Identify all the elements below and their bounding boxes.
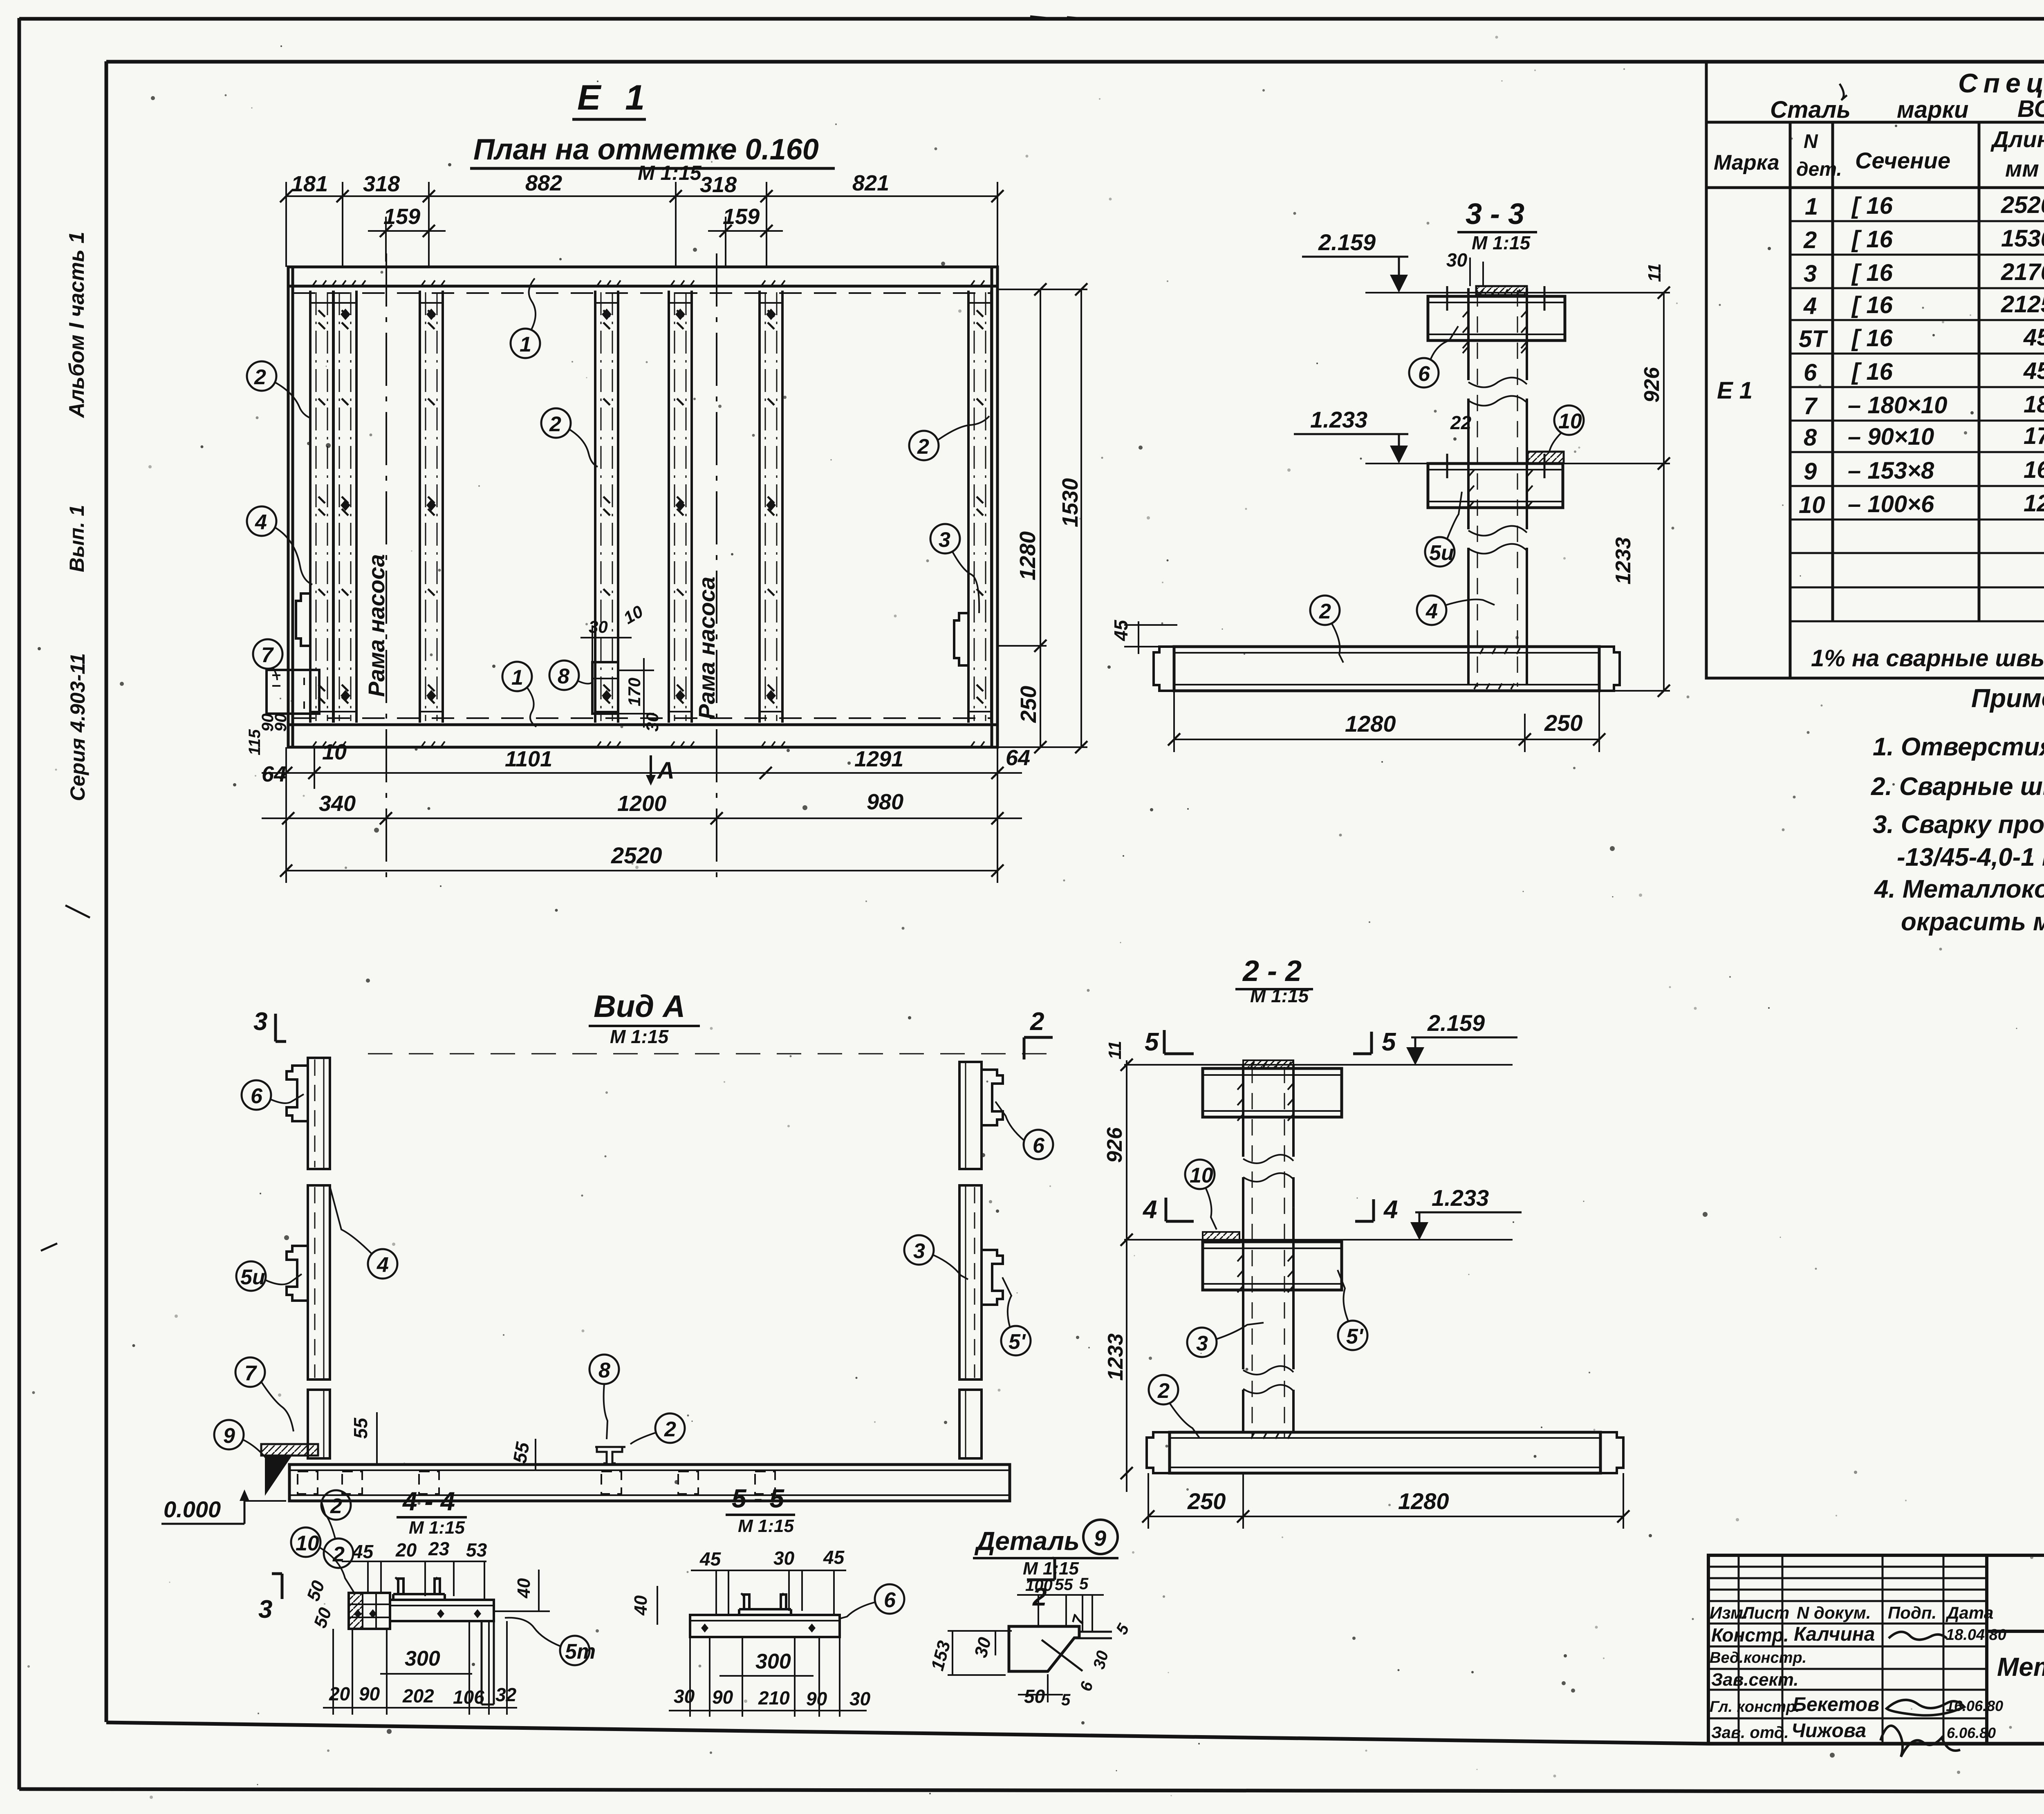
svg-text:7: 7 bbox=[261, 643, 274, 667]
part 10 at 1.233 bbox=[1528, 452, 1564, 463]
svg-text:дет.: дет. bbox=[1796, 159, 1842, 180]
svg-text:3 - 3: 3 - 3 bbox=[1466, 198, 1524, 231]
svg-text:450: 450 bbox=[2023, 358, 2044, 384]
svg-text:марки: марки bbox=[1897, 96, 1968, 123]
svg-text:М 1:15: М 1:15 bbox=[638, 161, 702, 184]
svg-text:159: 159 bbox=[383, 204, 420, 229]
svg-text:8: 8 bbox=[598, 1359, 610, 1382]
svg-text:Вып. 1: Вып. 1 bbox=[65, 505, 88, 572]
svg-text:45: 45 bbox=[699, 1548, 722, 1570]
balloons 2-2 bbox=[1187, 1328, 1217, 1357]
svg-text:160: 160 bbox=[2024, 457, 2044, 483]
top axis dash line bbox=[368, 1053, 1047, 1055]
svg-text:90: 90 bbox=[806, 1688, 827, 1709]
svg-text:М 1:15: М 1:15 bbox=[409, 1518, 465, 1538]
svg-text:2: 2 bbox=[330, 1494, 342, 1518]
svg-text:10: 10 bbox=[1190, 1164, 1213, 1187]
svg-text:Рама насоса: Рама насоса bbox=[694, 577, 719, 719]
svg-text:2: 2 bbox=[1803, 227, 1817, 253]
svg-text:1.233: 1.233 bbox=[1310, 407, 1367, 432]
svg-text:Зав. отд.: Зав. отд. bbox=[1711, 1724, 1789, 1742]
svg-text:2: 2 bbox=[917, 435, 929, 459]
svg-text:3. Сварку производить электрод: 3. Сварку производить электродами УОНИИ- bbox=[1873, 811, 2044, 839]
part 4 bracket left bbox=[296, 593, 312, 646]
svg-text:Марка: Марка bbox=[1714, 151, 1780, 175]
svg-text:210: 210 bbox=[758, 1687, 790, 1709]
svg-text:202: 202 bbox=[402, 1685, 434, 1707]
svg-text:Длина: Длина bbox=[1990, 126, 2044, 152]
svg-text:Е 1: Е 1 bbox=[577, 78, 652, 117]
svg-text:5Т: 5Т bbox=[1799, 326, 1828, 352]
svg-text:мм: мм bbox=[2005, 156, 2039, 181]
svg-text:Сталь: Сталь bbox=[1770, 96, 1851, 123]
svg-text:55: 55 bbox=[1055, 1576, 1073, 1594]
hatch ticks 3-3 column bbox=[1463, 289, 1533, 689]
svg-text:5': 5' bbox=[1009, 1330, 1026, 1354]
svg-text:53: 53 bbox=[466, 1539, 487, 1561]
channel on top 5-5 bbox=[739, 1593, 791, 1615]
svg-text:40: 40 bbox=[514, 1578, 534, 1599]
svg-text:6: 6 bbox=[1033, 1134, 1045, 1158]
svg-text:6: 6 bbox=[251, 1084, 263, 1108]
member center bbox=[595, 291, 618, 723]
part 8 plate center bbox=[592, 662, 618, 714]
svg-text:А: А bbox=[657, 757, 675, 784]
right column view A bbox=[959, 1062, 982, 1458]
top dimension line 2 (159) bbox=[368, 217, 783, 267]
beam 2-2 bbox=[1170, 1432, 1600, 1473]
svg-text:1530: 1530 bbox=[2001, 225, 2044, 252]
svg-text:8: 8 bbox=[1804, 424, 1817, 451]
svg-text:32: 32 bbox=[495, 1684, 517, 1705]
svg-text:10: 10 bbox=[1799, 492, 1825, 518]
member row2 bbox=[420, 291, 443, 723]
part 7 box bottom-left bbox=[267, 670, 319, 714]
svg-text:11: 11 bbox=[1105, 1041, 1125, 1059]
signatures (squiggles) bbox=[1880, 1632, 1964, 1757]
svg-text:55: 55 bbox=[509, 1440, 533, 1465]
left dim 2-2 bbox=[1126, 1060, 1127, 1492]
svg-text:10: 10 bbox=[296, 1532, 319, 1555]
svg-text:980: 980 bbox=[867, 790, 903, 814]
svg-text:5и: 5и bbox=[1429, 541, 1454, 565]
svg-text:Вид А: Вид А bbox=[594, 989, 685, 1024]
svg-text:3: 3 bbox=[913, 1239, 925, 1263]
svg-text:6.06.80: 6.06.80 bbox=[1947, 1724, 1996, 1741]
weld diamonds on members bbox=[341, 309, 776, 701]
svg-text:3: 3 bbox=[939, 528, 950, 552]
svg-text:7: 7 bbox=[1804, 393, 1818, 419]
svg-text:318: 318 bbox=[700, 172, 737, 197]
svg-text:Вед.констр.: Вед.констр. bbox=[1710, 1649, 1806, 1666]
bottom dims 3-3 bbox=[1174, 691, 1599, 752]
member right bbox=[968, 291, 991, 723]
svg-text:[ 16: [ 16 bbox=[1851, 292, 1893, 318]
balloons view A bbox=[242, 1080, 271, 1110]
svg-text:N: N bbox=[1804, 131, 1818, 152]
svg-text:Деталь: Деталь bbox=[974, 1526, 1080, 1556]
svg-text:2125: 2125 bbox=[2001, 291, 2044, 318]
balloons 3-3 bbox=[1409, 358, 1439, 387]
svg-text:30: 30 bbox=[674, 1686, 695, 1707]
svg-text:[ 16: [ 16 bbox=[1851, 193, 1893, 219]
structure 4-4 bbox=[349, 1593, 494, 1629]
svg-text:2: 2 bbox=[664, 1418, 676, 1441]
svg-text:Подп.: Подп. bbox=[1888, 1603, 1936, 1622]
svg-text:3: 3 bbox=[1804, 260, 1817, 287]
svg-text:170: 170 bbox=[625, 678, 644, 706]
svg-text:821: 821 bbox=[852, 171, 889, 195]
svg-text:6: 6 bbox=[884, 1588, 896, 1612]
svg-text:Серия 4.903-11: Серия 4.903-11 bbox=[66, 653, 89, 801]
svg-text:– 90×10: – 90×10 bbox=[1848, 423, 1934, 450]
svg-text:2 - 2: 2 - 2 bbox=[1242, 955, 1302, 988]
svg-text:5: 5 bbox=[1079, 1575, 1089, 1593]
svg-text:340: 340 bbox=[319, 791, 356, 816]
beam 3-3 bbox=[1174, 647, 1599, 691]
gusset polygon bbox=[1009, 1626, 1079, 1671]
svg-text:2: 2 bbox=[1319, 600, 1331, 623]
dims detail 9 bbox=[1025, 1575, 1089, 1595]
bottom dim line 1 bbox=[262, 747, 1022, 789]
base beam view A bbox=[289, 1465, 1010, 1501]
svg-text:Чижова: Чижова bbox=[1791, 1720, 1866, 1742]
top assembly 3-3 bbox=[1428, 296, 1565, 340]
svg-text:[ 16: [ 16 bbox=[1851, 325, 1893, 352]
svg-text:10: 10 bbox=[1558, 410, 1582, 433]
svg-text:5т: 5т bbox=[565, 1640, 596, 1664]
svg-text:1200: 1200 bbox=[617, 791, 666, 816]
member bbox=[760, 291, 782, 723]
svg-text:2520: 2520 bbox=[2001, 192, 2044, 218]
svg-text:4. Металлоконструкции огрунтов: 4. Металлоконструкции огрунтовать и bbox=[1874, 875, 2044, 903]
svg-text:N докум.: N докум. bbox=[1797, 1603, 1871, 1622]
svg-text:250: 250 bbox=[1016, 686, 1041, 723]
svg-text:9: 9 bbox=[223, 1424, 235, 1448]
svg-text:159: 159 bbox=[723, 204, 760, 229]
svg-text:1291: 1291 bbox=[854, 747, 903, 771]
svg-text:5': 5' bbox=[1346, 1325, 1364, 1348]
svg-text:1233: 1233 bbox=[1611, 537, 1635, 585]
svg-text:120: 120 bbox=[2024, 490, 2044, 517]
svg-text:250: 250 bbox=[1187, 1488, 1226, 1514]
svg-text:40: 40 bbox=[631, 1595, 651, 1616]
svg-text:4: 4 bbox=[1383, 1196, 1398, 1224]
channel on top 4-4 bbox=[393, 1577, 445, 1600]
svg-text:2: 2 bbox=[332, 1543, 345, 1566]
svg-text:[ 16: [ 16 bbox=[1851, 260, 1893, 286]
top dimension line 1 bbox=[286, 182, 997, 267]
svg-text:[ 16: [ 16 bbox=[1851, 358, 1893, 385]
bottom dims 4-4 bbox=[329, 1683, 517, 1708]
plate 5-5 bbox=[690, 1615, 840, 1637]
bottom dim line 3 (2520) bbox=[286, 870, 997, 871]
svg-text:1. Отверстия ф 15мм.: 1. Отверстия ф 15мм. bbox=[1873, 733, 2044, 761]
svg-text:7: 7 bbox=[244, 1362, 257, 1385]
svg-text:Зав.сект.: Зав.сект. bbox=[1711, 1670, 1799, 1690]
left column view A bbox=[308, 1058, 330, 1458]
small channel symbol part 2 bbox=[595, 1447, 625, 1463]
svg-text:5и: 5и bbox=[240, 1265, 265, 1289]
dashed channel sections inside beam bbox=[298, 1471, 775, 1494]
svg-text:30: 30 bbox=[1446, 249, 1468, 271]
svg-text:180: 180 bbox=[2024, 391, 2044, 418]
svg-text:Сечение: Сечение bbox=[1855, 148, 1950, 173]
svg-text:30: 30 bbox=[849, 1688, 871, 1709]
svg-text:22: 22 bbox=[1450, 412, 1472, 433]
svg-text:5: 5 bbox=[1145, 1028, 1159, 1056]
svg-text:– 153×8: – 153×8 bbox=[1848, 457, 1934, 484]
svg-text:0.000: 0.000 bbox=[164, 1496, 221, 1522]
svg-text:300: 300 bbox=[755, 1650, 791, 1673]
right dim 3-3 bbox=[1599, 293, 1670, 691]
svg-text:45: 45 bbox=[352, 1541, 374, 1562]
svg-text:1280: 1280 bbox=[1345, 711, 1396, 737]
svg-text:90: 90 bbox=[712, 1686, 733, 1708]
svg-text:100: 100 bbox=[1025, 1577, 1053, 1595]
part 7 plate + gusset 9 bbox=[261, 1444, 318, 1456]
svg-text:2520: 2520 bbox=[611, 842, 662, 868]
svg-text:300: 300 bbox=[405, 1647, 440, 1671]
svg-text:115: 115 bbox=[246, 729, 264, 755]
svg-text:45: 45 bbox=[1110, 619, 1132, 641]
top small plate bbox=[1476, 286, 1527, 295]
svg-text:90: 90 bbox=[359, 1683, 380, 1704]
svg-text:3: 3 bbox=[253, 1008, 267, 1036]
svg-text:11: 11 bbox=[1645, 263, 1665, 282]
second assembly 2-2 bbox=[1203, 1242, 1342, 1290]
svg-text:9: 9 bbox=[1804, 458, 1817, 485]
svg-text:1: 1 bbox=[1805, 193, 1818, 220]
dims 4-4 top bbox=[352, 1538, 487, 1562]
svg-text:18.04.80: 18.04.80 bbox=[1946, 1626, 2006, 1644]
dims 5-5 bbox=[699, 1547, 845, 1570]
svg-text:М 1:15: М 1:15 bbox=[1472, 232, 1531, 253]
svg-text:План на отметке 0.160: План на отметке 0.160 bbox=[473, 133, 819, 166]
A marker bbox=[650, 755, 652, 781]
svg-text:1530: 1530 bbox=[1058, 478, 1083, 527]
svg-text:926: 926 bbox=[1640, 367, 1664, 403]
svg-text:Гл. констр.: Гл. констр. bbox=[1710, 1698, 1800, 1715]
svg-text:20: 20 bbox=[329, 1683, 350, 1704]
svg-text:1280: 1280 bbox=[1015, 531, 1040, 580]
svg-text:окрасить масляной краской за 2: окрасить масляной краской за 2раза. bbox=[1901, 908, 2044, 936]
svg-text:450: 450 bbox=[2023, 324, 2044, 351]
svg-text:М 1:15: М 1:15 bbox=[738, 1516, 794, 1536]
member 2 left pair bbox=[310, 291, 333, 723]
svg-text:4 - 4: 4 - 4 bbox=[402, 1487, 455, 1516]
svg-text:45: 45 bbox=[823, 1547, 845, 1568]
svg-text:– 100×6: – 100×6 bbox=[1848, 491, 1934, 517]
svg-text:10: 10 bbox=[322, 740, 347, 764]
spec table header text bbox=[1714, 125, 2044, 184]
svg-text:Бекетов: Бекетов bbox=[1793, 1694, 1879, 1715]
svg-text:170: 170 bbox=[2024, 423, 2044, 449]
part 10 plate bbox=[1203, 1232, 1239, 1243]
svg-text:1: 1 bbox=[520, 333, 531, 356]
column 2-2 bbox=[1243, 1065, 1293, 1432]
svg-text:[ 16: [ 16 bbox=[1851, 226, 1893, 253]
svg-text:30: 30 bbox=[589, 617, 608, 636]
svg-text:20: 20 bbox=[395, 1539, 417, 1561]
svg-text:– 180×10: – 180×10 bbox=[1848, 392, 1948, 419]
svg-text:М 1:15: М 1:15 bbox=[1250, 985, 1309, 1006]
svg-text:2170: 2170 bbox=[2001, 259, 2044, 285]
small table bbox=[1708, 1555, 1987, 1745]
svg-text:2: 2 bbox=[1030, 1008, 1044, 1036]
svg-text:3: 3 bbox=[258, 1595, 272, 1624]
svg-text:4: 4 bbox=[1425, 600, 1438, 623]
svg-text:181: 181 bbox=[291, 172, 328, 196]
svg-text:4: 4 bbox=[1803, 293, 1817, 319]
svg-text:М 1:15: М 1:15 bbox=[610, 1026, 669, 1047]
svg-text:5 - 5: 5 - 5 bbox=[732, 1484, 784, 1513]
svg-text:6: 6 bbox=[1804, 359, 1817, 386]
svg-text:1: 1 bbox=[511, 666, 523, 690]
column 3-3 bbox=[1468, 288, 1527, 685]
bottom dim line 2 bbox=[262, 817, 1022, 819]
svg-text:90: 90 bbox=[272, 714, 290, 732]
svg-text:64: 64 bbox=[1006, 746, 1030, 770]
svg-text:Спецификация.: Спецификация. bbox=[1958, 68, 2044, 98]
band hatch ticks at member junctions bbox=[312, 280, 984, 747]
svg-text:1280: 1280 bbox=[1398, 1488, 1449, 1514]
svg-text:Лист: Лист bbox=[1741, 1603, 1789, 1622]
svg-text:55: 55 bbox=[350, 1417, 371, 1439]
svg-text:2: 2 bbox=[254, 365, 266, 389]
svg-text:1233: 1233 bbox=[1104, 1333, 1127, 1381]
svg-text:9: 9 bbox=[1094, 1526, 1106, 1551]
svg-text:3: 3 bbox=[1196, 1332, 1208, 1355]
svg-text:Альбом I часть 1: Альбом I часть 1 bbox=[65, 232, 89, 419]
top assembly 2-2 bbox=[1203, 1068, 1342, 1117]
svg-text:926: 926 bbox=[1103, 1127, 1127, 1163]
svg-text:30: 30 bbox=[643, 712, 662, 732]
left brackets bbox=[287, 1066, 308, 1121]
svg-text:64: 64 bbox=[262, 762, 286, 786]
svg-text:2: 2 bbox=[1157, 1379, 1170, 1403]
svg-text:Е 1: Е 1 bbox=[1717, 377, 1753, 404]
svg-text:2: 2 bbox=[549, 412, 561, 436]
svg-text:882: 882 bbox=[525, 171, 562, 195]
svg-text:4: 4 bbox=[1142, 1196, 1157, 1224]
svg-text:Калчина: Калчина bbox=[1794, 1624, 1875, 1645]
svg-text:23: 23 bbox=[428, 1538, 450, 1559]
second assembly 3-3 bbox=[1428, 464, 1563, 508]
svg-text:4: 4 bbox=[255, 511, 267, 534]
svg-text:6: 6 bbox=[1418, 362, 1430, 386]
svg-text:Рама насоса: Рама насоса bbox=[363, 554, 389, 697]
spec table data bbox=[1717, 189, 2044, 672]
right brackets bbox=[982, 1070, 1003, 1125]
svg-text:1% на сварные швы:: 1% на сварные швы: bbox=[1811, 645, 2044, 672]
plan outer rect bbox=[288, 267, 997, 747]
svg-text:-13/45-4,0-1 ГОСТ 9466-75.: -13/45-4,0-1 ГОСТ 9466-75. bbox=[1897, 843, 2044, 871]
section marks 5 and 4 bbox=[1142, 1028, 1398, 1224]
svg-text:4: 4 bbox=[377, 1253, 389, 1277]
svg-text:2.159: 2.159 bbox=[1427, 1010, 1485, 1036]
member bbox=[669, 291, 692, 723]
svg-text:2.159: 2.159 bbox=[1318, 229, 1376, 255]
right dim lines bbox=[997, 289, 1087, 747]
svg-text:8: 8 bbox=[558, 665, 569, 688]
svg-text:318: 318 bbox=[363, 172, 400, 196]
spec table grid bbox=[1706, 62, 2044, 678]
part 3 bracket right bbox=[954, 613, 970, 665]
svg-text:ВСт3кп2: ВСт3кп2 bbox=[2017, 96, 2044, 122]
svg-text:Констр.: Констр. bbox=[1711, 1624, 1789, 1646]
svg-text:5: 5 bbox=[1061, 1691, 1071, 1709]
pump frame axis lines bbox=[386, 253, 717, 879]
svg-text:30: 30 bbox=[773, 1547, 795, 1569]
svg-text:1.233: 1.233 bbox=[1432, 1185, 1489, 1211]
svg-text:1101: 1101 bbox=[505, 747, 552, 771]
bottom dims 2-2 bbox=[1148, 1473, 1623, 1529]
svg-text:50: 50 bbox=[1024, 1686, 1045, 1707]
svg-text:250: 250 bbox=[1544, 710, 1582, 736]
svg-text:Дата: Дата bbox=[1945, 1603, 1993, 1622]
svg-text:Металлоконструкция: Металлоконструкция bbox=[1997, 1652, 2044, 1682]
svg-text:Примечания:: Примечания: bbox=[1971, 683, 2044, 713]
svg-text:5: 5 bbox=[1382, 1028, 1396, 1056]
hatch ticks 2-2 column bbox=[1237, 1062, 1293, 1439]
svg-text:2. Сварные швы h6мм.: 2. Сварные швы h6мм. bbox=[1871, 773, 2044, 801]
